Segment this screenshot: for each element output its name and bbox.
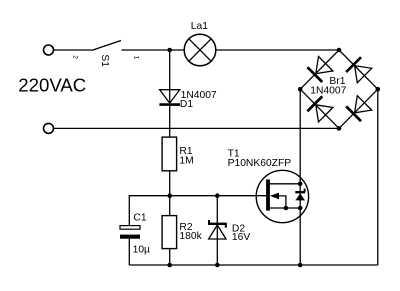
svg-text:220VAC: 220VAC bbox=[18, 75, 86, 96]
terminal bottom (220VAC line 2) bbox=[44, 123, 54, 133]
svg-text:S1: S1 bbox=[99, 54, 110, 67]
zener diode D2 bbox=[208, 220, 227, 239]
node rail/T1 source bbox=[298, 263, 303, 268]
gate line (C1/R1/D2 to T1 gate) bbox=[129, 195, 266, 197]
svg-text:C1: C1 bbox=[133, 213, 146, 224]
svg-text:P10NK60ZFP: P10NK60ZFP bbox=[228, 158, 292, 169]
node rail/R2 bbox=[167, 263, 172, 268]
wire bridge right corner down to bottom rail bbox=[377, 89, 379, 265]
bridge diode bottom-right bbox=[346, 95, 372, 121]
bridge diode top-left bbox=[307, 56, 333, 82]
node junction top wire / D1 bbox=[167, 48, 172, 53]
wire D1 branch vertical bbox=[169, 50, 171, 137]
terminal top (220VAC line 1) bbox=[44, 45, 54, 55]
resistor R1 bbox=[162, 137, 177, 171]
resistor R2 bbox=[162, 216, 177, 249]
node rail/D2 bbox=[215, 263, 220, 268]
bottom rail bbox=[129, 264, 377, 266]
wire R2 bottom bbox=[169, 249, 171, 265]
T1 body zener diode bbox=[295, 189, 305, 201]
wire R2 top bbox=[169, 196, 171, 216]
svg-text:1N4007: 1N4007 bbox=[310, 85, 346, 96]
wire AC line 2 to bridge bottom corner bbox=[54, 127, 339, 129]
bridge Br1 edges bbox=[300, 50, 378, 128]
node bridge bottom corner bbox=[337, 126, 342, 131]
svg-text:1: 1 bbox=[133, 56, 140, 60]
svg-text:D1: D1 bbox=[180, 99, 193, 110]
capacitor C1 bbox=[120, 226, 140, 239]
svg-text:La1: La1 bbox=[191, 21, 208, 32]
node bridge left corner bbox=[298, 87, 303, 92]
wire lamp to bridge top bbox=[216, 49, 339, 51]
wire bridge left corner down through T1 to bottom rail bbox=[299, 89, 301, 265]
svg-text:2: 2 bbox=[72, 55, 79, 59]
svg-text:1M: 1M bbox=[179, 155, 193, 166]
node junction gate/R1/R2 bbox=[167, 193, 172, 198]
svg-text:16V: 16V bbox=[232, 232, 250, 243]
node junction gate/D2 bbox=[215, 193, 220, 198]
bridge diode bottom-left bbox=[307, 96, 333, 122]
lamp La1 bbox=[184, 34, 216, 66]
wire terminal to switch pivot bbox=[54, 49, 92, 51]
switch S1 blade bbox=[91, 41, 121, 51]
diode D1 bbox=[159, 90, 180, 105]
MOSFET T1 bbox=[256, 170, 308, 222]
wire switch to lamp bbox=[121, 49, 184, 51]
svg-text:180k: 180k bbox=[179, 231, 202, 242]
node bridge top corner bbox=[337, 48, 342, 53]
wire D2 branch bbox=[216, 196, 218, 265]
node bridge right corner bbox=[376, 87, 381, 92]
bridge diode top-right bbox=[346, 57, 372, 83]
wire R1 bottom to gate line bbox=[169, 171, 171, 196]
capacitor C1 branch wire lower bbox=[128, 239, 130, 265]
capacitor C1 branch wire upper bbox=[128, 195, 130, 226]
svg-text:10µ: 10µ bbox=[133, 244, 150, 255]
